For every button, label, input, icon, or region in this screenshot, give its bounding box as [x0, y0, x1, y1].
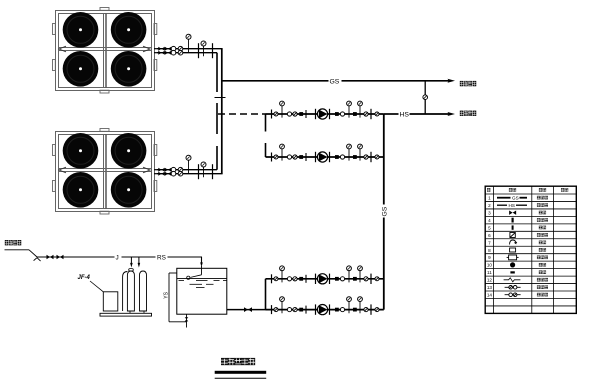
svg-text:9: 9	[488, 255, 491, 260]
svg-text:8: 8	[488, 248, 491, 253]
svg-text:14: 14	[487, 293, 493, 298]
svg-text:12: 12	[487, 278, 493, 283]
svg-text:GS: GS	[330, 78, 340, 85]
svg-text:13: 13	[487, 285, 493, 290]
svg-text:GS: GS	[381, 206, 388, 216]
svg-text:11: 11	[487, 270, 492, 275]
svg-text:J: J	[116, 255, 119, 262]
svg-text:HS: HS	[509, 203, 515, 208]
svg-text:YS: YS	[164, 291, 170, 298]
svg-text:1: 1	[488, 196, 491, 201]
svg-text:5: 5	[488, 225, 491, 230]
svg-text:HS: HS	[400, 112, 410, 119]
svg-text:7: 7	[488, 240, 491, 245]
svg-text:2: 2	[488, 203, 491, 208]
svg-text:RS: RS	[157, 255, 166, 262]
svg-text:10: 10	[487, 263, 493, 268]
svg-text:4: 4	[488, 218, 491, 223]
svg-text:3: 3	[488, 210, 491, 215]
svg-text:JF-4: JF-4	[78, 275, 91, 281]
svg-text:GS: GS	[512, 195, 519, 200]
svg-text:6: 6	[488, 233, 491, 238]
